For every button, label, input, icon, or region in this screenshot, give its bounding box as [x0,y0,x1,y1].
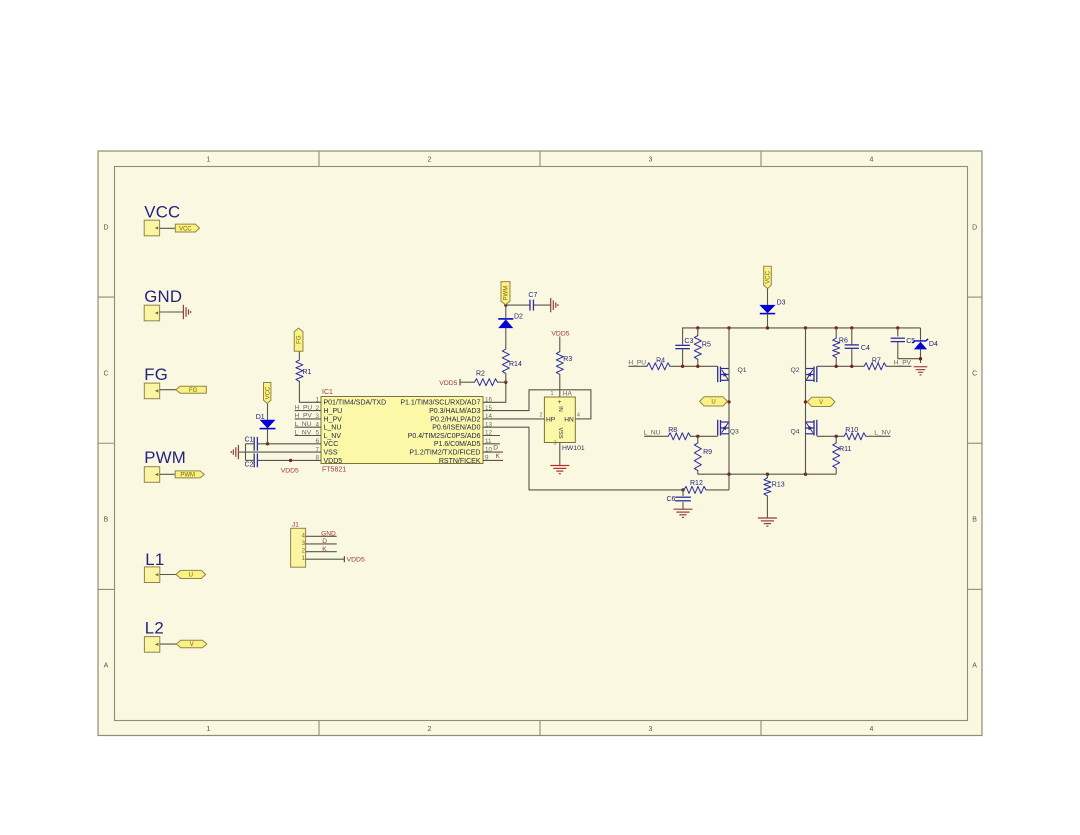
junction D4/C5/ground [919,357,922,360]
wire pin9 stub + net label K [483,459,503,461]
hall pin 2 HP [483,418,544,420]
diode D2 [498,319,513,328]
wire pin6 VCC row [257,443,321,445]
svg-text:R14: R14 [509,361,522,368]
transistor Q4 [816,420,818,436]
capacitor C4 [851,328,853,345]
svg-text:L_NV: L_NV [874,429,891,436]
svg-text:4: 4 [870,157,874,164]
resistor R14 [502,349,509,373]
net label flag V (power stage) [807,397,835,406]
svg-text:2: 2 [428,726,432,733]
frame row ticks left/right [98,296,115,298]
wire pin2 H_PU [295,410,321,412]
svg-text:R3: R3 [563,356,572,363]
svg-text:VSS: VSS [557,427,563,438]
wire Q1 drain to rail [728,328,730,369]
svg-text:B: B [104,517,109,524]
svg-text:VDD5: VDD5 [347,557,365,564]
VDD5 terminator on J1 pin1 [343,556,345,562]
junction R2/R14 node [504,381,507,384]
capacitor C6 [682,490,684,496]
svg-text:D: D [103,225,108,232]
svg-text:R8: R8 [668,427,677,434]
wire port L2 [160,643,177,645]
svg-text:1: 1 [550,391,553,397]
junction top rail [850,326,853,329]
svg-text:H_PU: H_PU [295,404,313,411]
VDD5 stub left of R2 [460,381,475,383]
svg-text:P0.6/ISEN/AD0: P0.6/ISEN/AD0 [432,425,480,432]
wire R4 to Q1 gate [670,365,718,367]
wire C5 bottom elbow to D4 column [898,358,921,360]
svg-text:R4: R4 [656,357,665,364]
svg-text:Q2: Q2 [791,367,800,374]
wire bottom rail [698,473,836,475]
svg-text:R11: R11 [839,446,851,453]
net label flag FG [176,386,206,393]
svg-text:VCC: VCC [766,270,772,283]
svg-text:R2: R2 [476,370,485,377]
svg-text:P1.6/C0M/AD5: P1.6/C0M/AD5 [434,441,481,448]
svg-text:V: V [190,642,194,648]
ground symbol below D4 [914,366,928,368]
svg-text:C2: C2 [245,462,254,469]
capacitor C3 [682,328,684,344]
wire pin16 [483,382,506,402]
wire R8 to Q3 gate [690,435,717,437]
wire top rail [683,327,921,329]
hall pin 4 HN [575,418,591,420]
svg-text:L_NU: L_NU [295,421,312,428]
resistor R1 [296,360,303,382]
svg-text:L_NU: L_NU [644,429,661,436]
svg-text:1: 1 [207,157,211,164]
svg-text:2: 2 [428,157,432,164]
ground symbol at GND port [182,305,184,319]
svg-text:L2: L2 [145,618,164,637]
resistor R12 [684,486,706,493]
capacitor C2 [253,454,255,468]
svg-text:H_PU: H_PU [324,408,343,415]
svg-text:RSTN/FICEK: RSTN/FICEK [439,458,481,465]
svg-text:VCC: VCC [144,202,180,221]
svg-text:C: C [103,371,108,378]
svg-text:P01/TIM4/SDA/TXD: P01/TIM4/SDA/TXD [324,400,387,407]
svg-text:D3: D3 [777,299,786,306]
svg-text:1: 1 [207,726,211,733]
svg-text:A: A [104,663,109,670]
svg-text:R5: R5 [702,342,711,349]
svg-text:L_NV: L_NV [295,429,312,436]
svg-text:D2: D2 [514,314,523,321]
svg-text:C4: C4 [861,345,870,352]
svg-text:R7: R7 [872,357,881,364]
svg-text:Q4: Q4 [791,429,800,436]
svg-text:H_PV: H_PV [324,416,343,423]
junction C4 gate row [850,365,853,368]
junction top rail [696,326,699,329]
wire pin4 L_NU [295,426,321,428]
svg-text:Q1: Q1 [738,367,747,374]
wire PWM node to C7 [506,304,530,306]
diode D4 (zener) [920,328,922,341]
svg-text:U: U [711,400,715,406]
wire C7 to ground [534,304,551,306]
connector J1 pin 2 [306,551,337,553]
net label flag U (power stage) [700,397,728,406]
connector J1 pin 3 [306,543,337,545]
svg-text:J1: J1 [292,521,299,528]
net label flag FG vertical [294,328,303,351]
wire D1 cathode down [267,429,269,444]
svg-text:VDD5: VDD5 [439,380,457,387]
wire pin13 to R12 node [483,427,683,490]
svg-text:R12: R12 [690,480,703,487]
svg-text:D4: D4 [929,341,938,348]
svg-text:P0.4/TIM2S/C0PS/AD6: P0.4/TIM2S/C0PS/AD6 [408,433,481,440]
transistor Q3 [717,420,719,436]
svg-text:VCC: VCC [324,441,339,448]
svg-text:H_PV: H_PV [894,360,912,367]
wire VDD5 to R3 [559,337,561,352]
junction V node [804,400,807,403]
resistor R3 [556,352,563,375]
wire V output column [805,369,807,435]
wire D2 to PWM node [505,305,507,319]
resistor R6 [835,328,837,338]
svg-text:PWM: PWM [144,448,186,467]
connector J1 pin 4 [306,535,337,537]
svg-text:FG: FG [189,388,198,394]
junction R11 top [835,435,838,438]
wire pin1 [299,381,321,402]
wire R10 left to Q4 gate [817,435,844,437]
resistor R5 [697,328,699,336]
hall sensor U2 body HW101 [544,397,575,443]
capacitor C7 [529,300,531,311]
frame column ticks top/bottom [318,151,320,167]
svg-text:P0.3/HALM/AD3: P0.3/HALM/AD3 [429,408,480,415]
svg-text:FG: FG [144,365,168,384]
junction C6 node [681,488,684,491]
svg-text:H_PV: H_PV [295,413,313,420]
svg-text:FT5821: FT5821 [322,467,346,474]
wire port FG [160,389,176,391]
resistor R11 [835,436,837,443]
svg-text:PWM: PWM [504,286,510,301]
wire R13 to ground [766,496,768,518]
transistor Q1 [717,366,719,382]
connector J1 body [291,528,306,567]
svg-text:VSS: VSS [324,450,338,457]
svg-text:IN: IN [557,406,563,412]
svg-text:3: 3 [649,157,653,164]
svg-text:R10: R10 [845,427,858,434]
svg-text:FG: FG [297,335,303,344]
svg-text:3: 3 [553,441,556,447]
transistor Q2 [816,366,818,382]
svg-text:H_PU: H_PU [628,360,646,367]
sheet inner border [115,167,968,721]
svg-text:HA: HA [563,391,573,398]
net label flag V [176,640,207,647]
net label flag PWM vertical [501,282,510,305]
ground symbol left of IC [237,445,239,459]
wire pin8 VDD5 row [257,459,321,461]
wire Q2 gate row [817,365,864,367]
resistor R8 [668,433,690,440]
wire Q3 source down to bottom rail [728,434,730,474]
schematic sheet background [98,151,982,736]
net label flag U [176,570,206,578]
wire R1 to FG flag [298,351,300,360]
svg-text:+: + [558,399,562,406]
svg-text:GND: GND [144,287,182,306]
svg-text:C1: C1 [245,437,254,444]
svg-text:L_NU: L_NU [324,425,342,432]
wire hall VSS to ground [559,443,561,466]
svg-text:3: 3 [649,726,653,733]
junction PWM node [504,303,507,306]
junction top rail [727,326,730,329]
net label flag PWM [175,471,204,478]
wire pin3 H_PV [295,418,321,420]
wire to ground left of C1/C2 [238,451,245,453]
svg-text:IC1: IC1 [322,389,333,396]
svg-text:GND: GND [321,530,336,537]
svg-text:Q3: Q3 [730,429,739,436]
wire left bus vertical [245,444,247,461]
wire HN loop to pin15 [483,390,591,419]
svg-text:L_NV: L_NV [324,433,342,440]
svg-text:P1.2/TIM2/TXD/FICED: P1.2/TIM2/TXD/FICED [409,450,480,457]
svg-text:VCC: VCC [265,386,271,399]
wire Q4 source to bottom rail [805,434,807,474]
wire R14 top to D2 [505,328,507,349]
junction top rail [896,326,899,329]
resistor R10 [844,433,866,440]
svg-text:R9: R9 [703,449,712,456]
junction VDD5-pin8 [289,459,292,462]
connector J1 pin 1 [306,558,345,560]
capacitor C1 [253,437,255,451]
wire R12 right to column [706,489,729,491]
wire pin7 VSS row [246,451,322,453]
wire pin12 stub [483,435,500,437]
svg-text:B: B [972,517,977,524]
wire port GND [160,311,184,313]
ground symbol below hall [550,465,569,467]
junction top rail [766,326,769,329]
junction R6 gate row [835,365,838,368]
wire U output column [728,369,730,435]
wire R2 right [498,381,506,383]
svg-text:PWM: PWM [180,473,195,479]
net label flag VCC vertical (above D1) [264,383,271,404]
svg-text:D: D [322,538,327,545]
wire C2 left [246,459,255,461]
svg-text:VDD5: VDD5 [324,458,343,465]
svg-text:R6: R6 [839,337,848,344]
svg-text:VCC: VCC [179,226,192,232]
resistor R2 [475,379,498,386]
junction R9 top [696,435,699,438]
junction top rail [804,326,807,329]
ground symbol below R13 [758,517,777,519]
svg-text:VDD5: VDD5 [281,467,299,474]
svg-text:HW101: HW101 [562,445,585,452]
resistor R9 [694,443,701,471]
wire C1 left [246,443,255,445]
wire R3 to hall pin1 [559,375,561,398]
wire D3 to rail [767,314,769,328]
wire Q3 source column to R12 row [728,474,730,490]
svg-text:A: A [972,663,977,670]
junction U node [727,400,730,403]
svg-text:VDD5: VDD5 [551,330,569,337]
ground symbol below C6 [674,508,693,510]
wire pin5 L_NV [295,435,321,437]
wire port PWM [160,473,176,475]
junction top rail [835,326,838,329]
svg-text:P1.1/TIM3/SCL/RXD/AD7: P1.1/TIM3/SCL/RXD/AD7 [400,400,480,407]
svg-text:K: K [322,546,327,553]
wire pin11 stub [483,443,500,445]
wire D4 to junction [920,349,922,363]
svg-text:HP: HP [546,417,556,424]
net label flag VCC [175,224,199,232]
junction D1-pin6 [266,442,269,445]
IC U1 body FT5821 [321,397,483,464]
svg-text:4: 4 [870,726,874,733]
svg-text:C: C [972,371,977,378]
resistor R7 [864,363,886,370]
diode D3 [759,305,775,313]
svg-text:K: K [496,453,501,460]
resistor R13 [766,474,768,478]
svg-text:C6: C6 [666,496,675,503]
svg-text:R1: R1 [303,369,312,376]
wire port VCC [160,227,176,229]
wire R14 bottom [505,373,507,382]
svg-text:C3: C3 [684,338,693,345]
svg-text:D: D [972,225,977,232]
wire R7 right stub H_PV [886,365,911,367]
svg-text:4: 4 [577,413,580,419]
wire port L1 [160,574,176,576]
wire Q2 drain to rail [805,328,807,369]
wire D1 anode to VCC flag [267,404,269,420]
resistor R4 [647,363,670,370]
net label L_NV + wire [874,435,890,437]
svg-text:HN: HN [564,417,574,424]
svg-text:D: D [493,445,498,452]
wire VCC flag to D3 [767,289,769,305]
svg-text:C7: C7 [528,292,537,299]
diode D1 [260,420,276,429]
net label flag VCC vertical (above D3) [764,266,772,288]
capacitor C5 [897,328,899,337]
svg-text:V: V [819,400,823,406]
svg-text:2: 2 [539,413,542,419]
svg-text:U: U [189,573,193,579]
wire pin10 stub + net label D [483,451,503,453]
svg-text:D1: D1 [256,414,265,421]
svg-text:R13: R13 [772,482,785,489]
ground symbol right of C7 [550,298,552,312]
svg-text:P0.2/HALP/AD2: P0.2/HALP/AD2 [430,416,480,423]
svg-text:L1: L1 [145,550,164,569]
